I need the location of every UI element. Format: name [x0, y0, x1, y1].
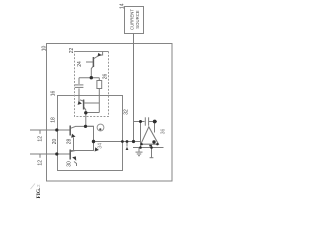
svg-text:36: 36: [161, 129, 167, 135]
svg-text:16: 16: [51, 91, 57, 97]
svg-text:2: 2: [36, 184, 41, 187]
svg-text:34: 34: [98, 143, 104, 149]
svg-text:CURRENT: CURRENT: [129, 9, 134, 30]
svg-text:20: 20: [52, 139, 58, 145]
svg-text:14: 14: [119, 3, 125, 9]
svg-text:24: 24: [77, 61, 83, 67]
svg-text:FIG.: FIG.: [36, 187, 42, 199]
svg-text:12: 12: [37, 160, 43, 166]
svg-text:28: 28: [67, 139, 73, 145]
svg-text:26: 26: [103, 74, 109, 80]
svg-text:18: 18: [51, 117, 57, 123]
svg-text:22: 22: [69, 48, 75, 54]
svg-text:30: 30: [67, 161, 73, 167]
svg-text:10: 10: [42, 46, 48, 52]
svg-text:12: 12: [37, 136, 43, 142]
svg-text:32: 32: [124, 109, 130, 115]
svg-text:SOURCE: SOURCE: [135, 10, 140, 29]
